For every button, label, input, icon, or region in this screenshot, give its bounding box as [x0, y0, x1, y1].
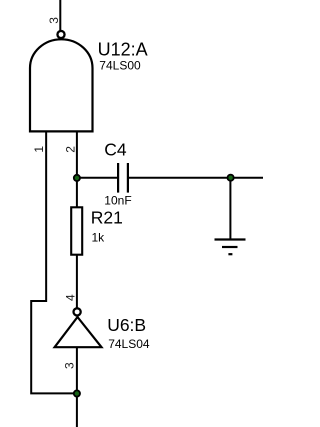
svg-text:U12:A: U12:A	[98, 39, 148, 59]
svg-text:10nF: 10nF	[104, 194, 131, 208]
svg-text:4: 4	[64, 294, 78, 301]
svg-text:74LS00: 74LS00	[99, 59, 141, 73]
svg-text:3: 3	[47, 17, 61, 24]
svg-text:1k: 1k	[92, 230, 106, 244]
svg-text:R21: R21	[91, 208, 123, 228]
svg-text:2: 2	[64, 146, 78, 153]
svg-text:C4: C4	[104, 139, 127, 159]
svg-text:U6:B: U6:B	[107, 315, 146, 335]
svg-text:3: 3	[62, 362, 76, 369]
svg-text:1: 1	[32, 146, 46, 153]
svg-text:74LS04: 74LS04	[108, 337, 150, 351]
